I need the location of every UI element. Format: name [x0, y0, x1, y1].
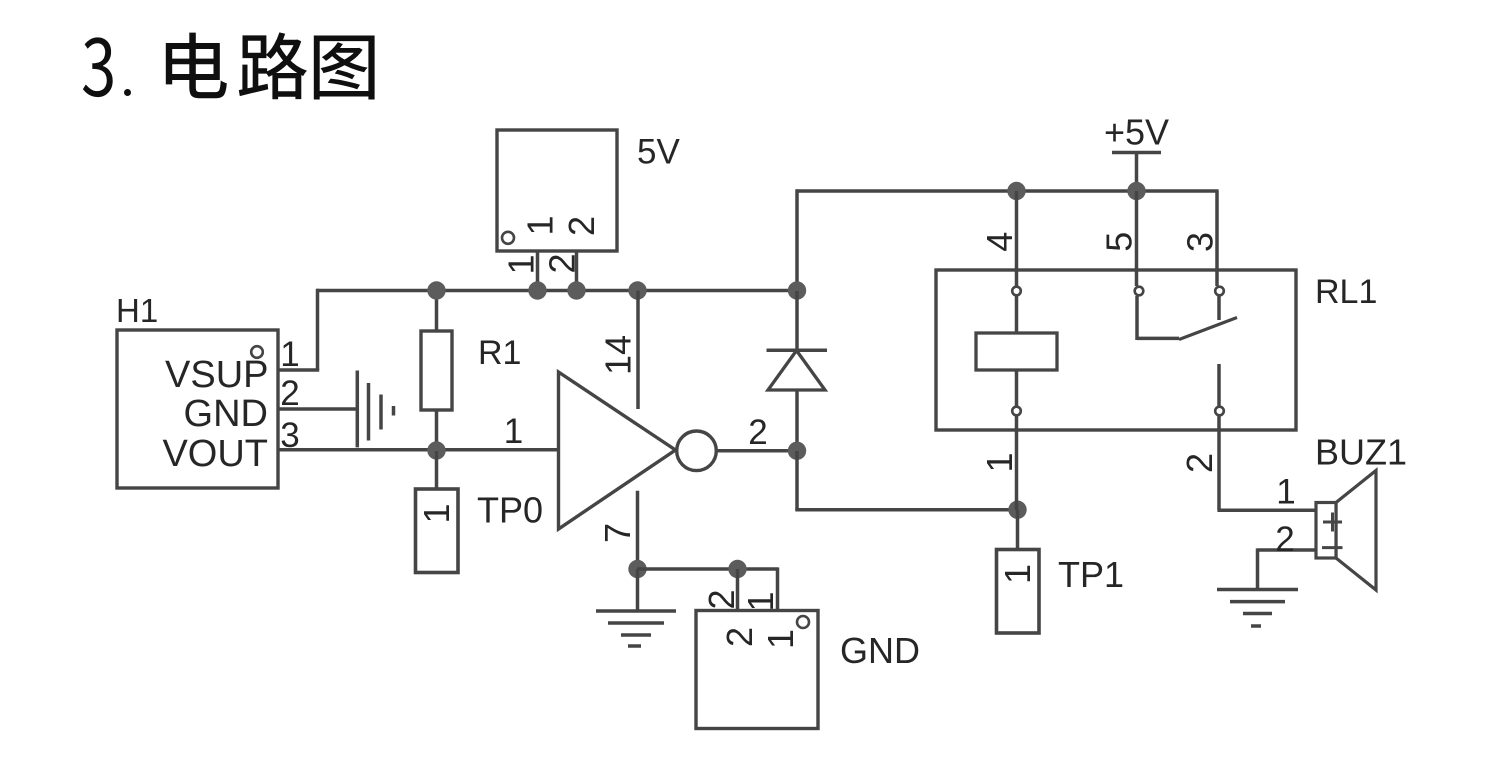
wire coil bottom [1015, 370, 1019, 406]
connector H1 box [117, 330, 278, 488]
svg-text:2: 2 [1179, 453, 1220, 473]
svg-text:1: 1 [1276, 473, 1295, 512]
node junction R1/VOUT/TP0 [427, 441, 445, 459]
wire bus B horizontal [796, 189, 1219, 193]
node junction pin7/earth [628, 560, 646, 578]
wire H1 pin2 [278, 407, 357, 411]
buzzer BUZ1 body [1316, 503, 1336, 559]
wire 5V pin1 stub [536, 251, 540, 291]
H1 pin-1 indicator circle [251, 346, 263, 358]
wire H1 pin1 [278, 368, 319, 372]
inverter bubble [677, 431, 717, 471]
svg-text:2: 2 [701, 589, 742, 609]
earth ground at buzzer [1217, 588, 1298, 592]
earth ground at pin 7 [596, 609, 676, 613]
node junction GND pin2 [728, 560, 746, 578]
wire relay pin 4 [1015, 191, 1019, 286]
wire relay pin 2 [1217, 416, 1221, 510]
earth ground at H1 pin2 (rotated) [356, 371, 360, 448]
wire inverter pin 7 [636, 491, 640, 569]
buzzer BUZ1 horn [1336, 471, 1376, 591]
wire H1 pin3 / inverter input net [278, 448, 559, 452]
wire buzzer pin 2 left [1258, 548, 1317, 552]
node junction busA/R1 [427, 281, 445, 299]
svg-text:1: 1 [740, 591, 781, 611]
node junction 5V pin2 [567, 281, 585, 299]
svg-text:14: 14 [598, 335, 639, 375]
svg-text:BUZ1: BUZ1 [1315, 432, 1407, 473]
svg-text:1: 1 [504, 412, 523, 451]
svg-text:1: 1 [979, 452, 1020, 472]
wire inverter output [716, 449, 798, 453]
svg-text:RL1: RL1 [1315, 273, 1377, 311]
wire +5V stub [1135, 153, 1139, 192]
wire relay pin 1 [1015, 416, 1019, 510]
wire TP0 stub [435, 451, 439, 490]
wire R1 top [435, 291, 439, 332]
wire relay pin 5 [1135, 191, 1139, 286]
svg-text:TP1: TP1 [1058, 554, 1124, 595]
svg-text:2: 2 [719, 627, 760, 647]
relay coil [976, 333, 1057, 370]
svg-text:5V: 5V [637, 133, 680, 172]
svg-text:1: 1 [760, 629, 801, 649]
wire GND pin1 elbow [776, 567, 780, 612]
buzzer minus [1322, 546, 1343, 549]
node junction busB/pin5 [1127, 182, 1145, 200]
svg-text:R1: R1 [478, 334, 521, 372]
svg-text:GND: GND [840, 630, 920, 671]
wire coil top [1015, 296, 1019, 333]
diode D1 triangle [768, 351, 825, 391]
relay switch blade [1179, 318, 1237, 340]
svg-text:2: 2 [280, 374, 299, 413]
wire NC stub [1217, 296, 1221, 320]
svg-text:H1: H1 [116, 292, 158, 329]
wire pin7 net horizontal [637, 567, 778, 571]
resistor R1 [421, 331, 452, 410]
wire elbow right [795, 508, 1018, 512]
svg-text:7: 7 [597, 523, 638, 543]
power +5V bar [1112, 151, 1161, 155]
GND pin-1 indicator circle [797, 616, 809, 628]
svg-text:1: 1 [280, 335, 299, 374]
wire buzzer pin 2 down [1256, 548, 1260, 589]
node junction TP1 [1008, 501, 1026, 519]
svg-text:GND: GND [184, 393, 268, 435]
svg-text:VOUT: VOUT [162, 433, 268, 475]
svg-text:2: 2 [1275, 520, 1294, 559]
svg-text:TP0: TP0 [477, 490, 543, 531]
wire relay pin2 to buzzer [1217, 508, 1316, 512]
wire common foot [1137, 337, 1179, 341]
wire TP1 stub [1016, 510, 1020, 550]
wire 5V pin2 stub [575, 251, 579, 291]
node junction output/diode [788, 442, 806, 460]
relay RL1 box [936, 270, 1296, 430]
svg-text:4: 4 [979, 232, 1020, 252]
svg-text:1: 1 [501, 254, 542, 274]
relay coil bottom terminal [1012, 407, 1021, 416]
5V pin-1 indicator circle [502, 232, 514, 244]
testpoint TP0 box [416, 489, 459, 573]
wire to diode cathode [795, 291, 799, 350]
svg-text:2: 2 [561, 216, 602, 236]
wire H1 pin1 riser [316, 289, 320, 370]
relay NC terminal [1215, 287, 1224, 296]
diode D1 cathode bar [767, 348, 828, 352]
svg-text:1: 1 [520, 215, 561, 235]
wire GND pin2 stub [736, 569, 740, 612]
inverter U1 triangle [559, 372, 676, 529]
svg-text:1: 1 [997, 564, 1038, 584]
node junction busB/pin4 [1007, 182, 1025, 200]
testpoint TP1 box [997, 550, 1040, 634]
wire earth stub [636, 569, 640, 611]
wire diode anode [795, 390, 799, 452]
wire bus A horizontal [317, 289, 798, 293]
relay NO terminal [1215, 407, 1224, 416]
relay coil top terminal [1012, 287, 1021, 296]
svg-text:1: 1 [416, 503, 457, 523]
node junction busA/pin14 [628, 281, 646, 299]
wire elbow down [795, 451, 799, 510]
svg-text:+5V: +5V [1104, 112, 1169, 153]
node junction 5V pin1 [528, 281, 546, 299]
svg-text:2: 2 [542, 253, 583, 273]
wire inverter pin 14 [636, 291, 640, 410]
wire diode branch top [795, 189, 799, 292]
buzzer plus [1323, 521, 1342, 524]
wire relay pin 3 [1215, 191, 1219, 286]
wire R1 bottom [435, 410, 439, 451]
svg-text:2: 2 [748, 413, 767, 452]
svg-text:5: 5 [1099, 232, 1140, 252]
svg-text:3: 3 [1180, 232, 1221, 252]
relay common terminal [1135, 287, 1144, 296]
svg-text:VSUP: VSUP [165, 354, 268, 396]
connector 5V box [497, 130, 617, 251]
title "3. 电路图" [83, 32, 375, 99]
wire common down [1135, 296, 1139, 340]
node junction busA/diode [788, 281, 806, 299]
connector GND box [696, 611, 818, 729]
wire NO contact [1217, 364, 1221, 406]
